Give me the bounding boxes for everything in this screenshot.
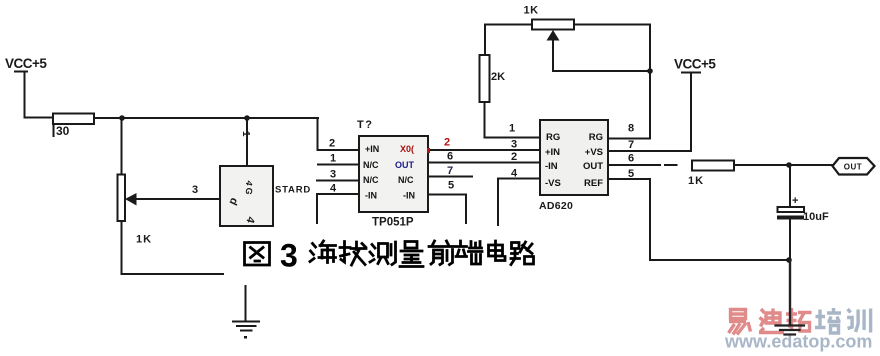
- caption char hai (sea): [310, 241, 336, 263]
- caption char ba (pull): [340, 242, 366, 266]
- svg-text:6: 6: [628, 153, 634, 165]
- wire 2K to U3 pin1: [485, 102, 541, 138]
- potentiometer RV2 1K top: [524, 5, 575, 30]
- svg-text:4: 4: [511, 168, 518, 180]
- svg-text:TP051P: TP051P: [372, 217, 414, 229]
- svg-text:RG: RG: [546, 132, 560, 143]
- svg-text:+VS: +VS: [585, 147, 603, 158]
- wire U2 red pin to AD620 pin3: [427, 137, 540, 154]
- op-amp U3 AD620 box: [539, 120, 608, 212]
- potentiometer RV1 1K body: [118, 175, 153, 246]
- svg-text:AD620: AD620: [539, 200, 573, 212]
- wiper arrow RV1: [125, 193, 137, 206]
- svg-text:RG: RG: [589, 132, 603, 143]
- resistor R3 1K: [688, 161, 734, 188]
- caption char lu (road): [511, 242, 534, 265]
- svg-text:1K: 1K: [136, 234, 152, 246]
- wire U2 pin4 down: [317, 183, 359, 224]
- wire pot bottom: [122, 221, 224, 274]
- svg-text:-IN: -IN: [545, 161, 558, 172]
- svg-text:-IN: -IN: [365, 191, 377, 201]
- wire top bus: [94, 117, 318, 119]
- watermark char tuo (expand) red: [786, 308, 812, 331]
- caption char qian (front): [429, 241, 454, 265]
- svg-text:1: 1: [240, 131, 251, 137]
- svg-text:2: 2: [444, 137, 450, 149]
- wire U3 pin8 to RG pot: [608, 123, 650, 139]
- svg-text:+IN: +IN: [365, 144, 379, 154]
- capacitor C1 10uF: [777, 195, 829, 223]
- svg-text:3: 3: [192, 184, 198, 196]
- svg-text:1: 1: [330, 153, 336, 165]
- svg-text:8: 8: [628, 123, 634, 135]
- svg-text:+: +: [792, 195, 798, 207]
- svg-text:1: 1: [509, 123, 515, 135]
- wire bus drop to U2 pin2: [318, 118, 360, 150]
- svg-text:3: 3: [511, 139, 517, 151]
- wire pot left down to 2K: [484, 25, 486, 56]
- node junction RG: [647, 68, 653, 74]
- watermark char pei (cultivate) blue: [815, 308, 841, 333]
- wire wiper to STARD pin3: [136, 184, 220, 199]
- svg-text:1K: 1K: [524, 5, 539, 17]
- node junction rail: [786, 257, 792, 263]
- wire pot right down to pin8: [649, 25, 651, 139]
- wiper arrow RV2: [547, 30, 560, 41]
- wire U2 pin1 stub: [318, 153, 359, 165]
- caption char tu (figure): [245, 243, 270, 266]
- wire U3 pin5 REF down: [608, 168, 650, 260]
- svg-text:VCC+5: VCC+5: [674, 57, 716, 72]
- power VCC+5 left: [5, 56, 47, 72]
- svg-text:7: 7: [628, 139, 634, 151]
- wire pot right: [574, 24, 650, 26]
- wire STARD pin1: [240, 118, 251, 166]
- svg-text:2: 2: [511, 151, 517, 163]
- svg-text:T?: T?: [357, 119, 373, 131]
- svg-text:REF: REF: [584, 178, 603, 189]
- wire pot left: [485, 24, 532, 26]
- svg-text:VCC+5: VCC+5: [5, 56, 47, 71]
- svg-text:2: 2: [329, 138, 335, 150]
- caption char liang (quantity): [400, 242, 423, 267]
- watermark char xun (training) blue: [847, 309, 871, 333]
- wire U2 pin7 stub: [428, 165, 472, 177]
- svg-text:OUT: OUT: [395, 160, 415, 170]
- svg-text:10uF: 10uF: [803, 211, 829, 223]
- wire bus to pot RV1: [121, 118, 123, 175]
- wire cap bottom down: [789, 220, 791, 261]
- svg-text:www.edatop.com: www.edatop.com: [724, 332, 872, 352]
- svg-text:N/C: N/C: [363, 160, 379, 170]
- caption char dian (electric): [489, 241, 506, 261]
- resistor R30: [53, 114, 94, 139]
- svg-text:N/C: N/C: [363, 175, 379, 185]
- svg-text:4: 4: [330, 183, 337, 195]
- node junction STARD pin1: [244, 115, 250, 121]
- wire U2 pin3 stub: [317, 169, 359, 181]
- wire U3 pin6 OUT: [608, 153, 677, 166]
- node junction pot top: [119, 115, 125, 121]
- svg-text:X0(: X0(: [400, 144, 414, 154]
- svg-text:-IN: -IN: [403, 191, 415, 201]
- svg-text:5: 5: [628, 168, 634, 180]
- watermark char di (enlighten) red: [759, 309, 784, 333]
- svg-text:+IN: +IN: [545, 147, 560, 158]
- power VCC+5 right: [674, 57, 716, 152]
- wire U3 pin7 to VCC: [608, 139, 691, 151]
- node junction cap top: [786, 162, 792, 168]
- svg-text:3: 3: [330, 169, 336, 181]
- svg-text:STARD: STARD: [275, 185, 311, 196]
- svg-text:OUT: OUT: [583, 161, 603, 172]
- connector OUT tag: [833, 158, 875, 175]
- ground left: [233, 286, 259, 339]
- svg-text:7: 7: [447, 165, 453, 177]
- watermark char yi (easy) red: [729, 310, 751, 335]
- caption figure 3 label: [245, 238, 534, 274]
- op-amp U2 TP051P box: [357, 119, 428, 229]
- wire U2 pin6 to AD620 pin2: [428, 151, 540, 163]
- wire U2 pin5 down: [428, 180, 466, 224]
- wire REF rail: [650, 259, 789, 261]
- wire R3 to OUT: [734, 164, 832, 166]
- ground right (over watermark): [776, 260, 805, 335]
- svg-text:2K: 2K: [491, 71, 505, 83]
- svg-text:6: 6: [447, 151, 453, 163]
- caption digit 3: [280, 238, 298, 274]
- wire VCC to R30: [25, 72, 54, 118]
- svg-text:-VS: -VS: [545, 178, 561, 189]
- svg-text:1K: 1K: [688, 175, 704, 187]
- svg-text:OUT: OUT: [844, 163, 862, 172]
- resistor R2 2K: [480, 55, 506, 102]
- watermark edatop logo: [724, 308, 872, 352]
- caption char duan (end): [456, 241, 482, 264]
- wire junction down to cap: [789, 165, 791, 207]
- wire wiper to junction: [553, 40, 650, 71]
- svg-text:5: 5: [448, 180, 454, 192]
- svg-text:30: 30: [56, 124, 70, 138]
- svg-text:3: 3: [280, 238, 298, 274]
- caption char ce (measure): [370, 242, 396, 265]
- sensor U1 STARD box: [220, 166, 311, 226]
- wire U3 pin4 -VS down: [498, 168, 540, 226]
- svg-text:N/C: N/C: [398, 175, 414, 185]
